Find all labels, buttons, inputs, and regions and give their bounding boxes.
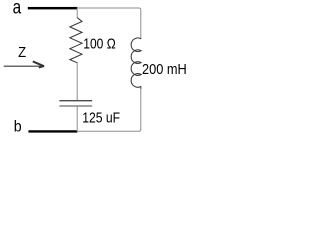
wire: resistor to capacitor xyxy=(76,63,78,101)
impedance arrow Z shaft xyxy=(4,65,44,67)
resistor R (100 ohm) zigzag xyxy=(70,18,82,63)
wire: top horizontal with rounded corner into inductor branch xyxy=(77,8,141,39)
svg-text:100 Ω: 100 Ω xyxy=(83,36,115,53)
capacitor C bottom plate xyxy=(59,105,92,107)
svg-text:Z: Z xyxy=(18,45,26,61)
capacitor C top plate xyxy=(59,100,92,102)
svg-text:125 uF: 125 uF xyxy=(82,109,120,126)
wire: terminal a thick lead xyxy=(28,7,78,9)
impedance arrow head top barb xyxy=(33,61,44,66)
impedance arrow head bottom barb xyxy=(39,66,44,68)
svg-text:b: b xyxy=(14,118,22,135)
wire: inductor coil-end tick xyxy=(140,86,142,89)
inductor L coil (4 turns) xyxy=(131,38,141,87)
wire: resistor top lead xyxy=(76,8,78,18)
svg-text:200 mH: 200 mH xyxy=(142,61,187,78)
svg-text:a: a xyxy=(13,0,22,19)
wire: bottom horizontal with rounded corner into inductor branch xyxy=(77,86,141,131)
wire: terminal b thick lead xyxy=(28,130,77,132)
wire: capacitor to bottom xyxy=(76,106,78,132)
